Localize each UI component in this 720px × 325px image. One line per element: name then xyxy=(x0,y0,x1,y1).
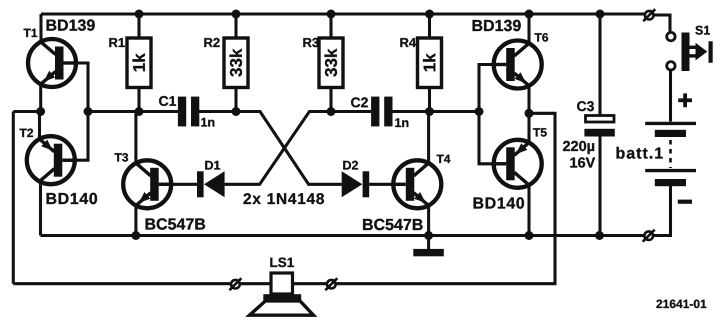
wire T5 base xyxy=(479,112,506,164)
wire R3 top lead xyxy=(329,14,332,39)
wire C3 top lead xyxy=(598,14,601,116)
wire T6 collector to rail xyxy=(527,14,530,44)
battery batt.1 xyxy=(645,123,696,186)
resistor R4 xyxy=(400,38,441,88)
resistor R3 xyxy=(303,38,343,88)
wire D2 to T4 base xyxy=(369,183,393,186)
junction on mid wire xyxy=(36,107,45,116)
capacitor C3 xyxy=(577,101,615,136)
switch S1 contact bottom xyxy=(667,62,675,70)
junction on mid wire xyxy=(232,107,241,116)
wire output to right drop xyxy=(336,113,555,283)
wire bottom 0V rail xyxy=(41,234,645,237)
terminal top rail xyxy=(643,9,655,21)
label T2 xyxy=(20,129,33,137)
label T5 xyxy=(533,128,547,136)
label minus xyxy=(678,200,692,204)
junction on top rail xyxy=(327,10,336,19)
terminal bottom rail xyxy=(643,230,655,242)
wire base bus left xyxy=(88,110,178,113)
wire T3 base to D1 xyxy=(159,183,197,186)
label BC547B left xyxy=(146,218,206,229)
label 21641-01 xyxy=(656,300,706,309)
wire battery minus to bottom rail xyxy=(653,186,671,236)
transistor T3 xyxy=(123,160,173,208)
junction on 0V rail xyxy=(595,231,604,240)
junction on mid wire xyxy=(84,107,93,116)
label BD139 left xyxy=(47,19,95,30)
label BD139 right xyxy=(473,20,521,31)
loudspeaker LS1 xyxy=(250,273,314,315)
wire T1 base xyxy=(64,63,89,112)
diode D2 xyxy=(342,161,370,198)
label 2x 1N4148 xyxy=(244,193,325,204)
label S1 xyxy=(695,26,710,35)
wire T1 emitter down xyxy=(39,84,42,112)
wire T2 emitter up xyxy=(38,112,41,140)
transistor T5 xyxy=(492,140,542,188)
junction on 0V rail xyxy=(525,231,534,240)
switch S1 contact top xyxy=(667,32,675,40)
wire T5 collector down xyxy=(527,185,530,236)
wire R4 top lead xyxy=(428,14,431,39)
transistor T2 xyxy=(27,136,77,184)
label 220u xyxy=(563,141,594,154)
label plus xyxy=(678,93,692,107)
junction on mid wire xyxy=(135,107,144,116)
wire T5 emitter up xyxy=(527,113,530,142)
label BD140 left xyxy=(47,193,97,204)
label T3 xyxy=(115,153,129,162)
wire LS1 right lead xyxy=(293,282,327,285)
capacitor C2 xyxy=(351,97,408,127)
label BC547B right xyxy=(363,219,423,230)
wire left output drop xyxy=(12,112,15,284)
label T1 xyxy=(24,29,38,37)
resistor R2 xyxy=(204,38,248,88)
wire ground stub xyxy=(427,236,430,251)
diode D1 xyxy=(197,161,225,197)
wire T3 emitter down xyxy=(134,205,137,235)
wire S1 to battery plus xyxy=(669,70,672,121)
wire T4 emitter down xyxy=(427,205,430,235)
wire cross to D1 xyxy=(225,112,371,185)
label LS1 xyxy=(270,258,294,268)
wire T6 emitter down xyxy=(527,88,530,114)
switch S1 button xyxy=(682,33,713,72)
label T4 xyxy=(437,155,451,163)
junction on top rail xyxy=(525,10,534,19)
wire top supply rail xyxy=(41,12,645,15)
wire C2 right to bases xyxy=(392,110,479,113)
wire T1 collector to rail xyxy=(39,14,42,43)
wire T3 collector up xyxy=(134,112,137,164)
junction T6-T5 emitters xyxy=(525,109,534,118)
resistor R1 xyxy=(109,38,151,88)
junction on top rail xyxy=(596,10,605,19)
wire R2 top lead xyxy=(234,14,237,39)
wire bottom left to LS1 xyxy=(13,282,231,285)
wire R3 bottom lead xyxy=(329,87,332,112)
label 16V xyxy=(570,157,595,167)
transistor T1 xyxy=(28,39,78,87)
terminal LS1 right xyxy=(325,278,337,290)
junction on 0V rail xyxy=(131,231,140,240)
wire T2 collector down xyxy=(39,181,42,235)
wire R4 bottom lead xyxy=(428,87,431,112)
junction on mid wire xyxy=(475,107,484,116)
wire emitter node segment xyxy=(13,110,40,113)
terminal LS1 left xyxy=(229,278,241,290)
label BD140 right xyxy=(474,197,524,208)
wire rail to S1 xyxy=(654,15,670,32)
junction on top rail xyxy=(135,10,144,19)
wire T4 collector up xyxy=(427,112,430,164)
wire R2 bottom lead xyxy=(234,87,237,112)
wire T6 base xyxy=(479,65,506,112)
junction on top rail xyxy=(232,10,241,19)
junction on mid wire xyxy=(425,107,434,116)
wire C1 right to cross xyxy=(199,112,342,185)
transistor T6 xyxy=(492,41,542,89)
junction on 0V rail xyxy=(424,231,433,240)
junction on mid wire xyxy=(327,107,336,116)
wire LS1 left lead xyxy=(240,282,271,285)
ground xyxy=(413,249,444,256)
transistor T4 xyxy=(391,160,441,208)
junction on top rail xyxy=(425,10,434,19)
label batt.1 xyxy=(617,147,663,159)
wire C3 bottom lead xyxy=(598,136,601,236)
capacitor C1 xyxy=(159,96,214,127)
wire R1 top lead xyxy=(137,14,140,39)
wire T2 base xyxy=(63,112,88,161)
label T6 xyxy=(535,33,549,42)
wire R1 bottom lead xyxy=(137,87,140,112)
